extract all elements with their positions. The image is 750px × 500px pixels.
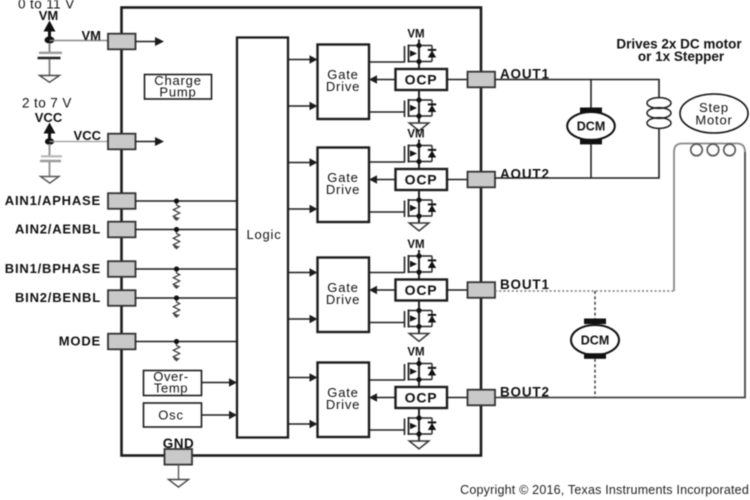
svg-text:Pump: Pump	[159, 85, 196, 100]
pin BIN2/BENBL	[108, 290, 136, 306]
wire gate drive to low-side gate A2	[369, 211, 405, 213]
wire OCP to gate drive A2	[369, 175, 396, 183]
wire AOUT2 external	[495, 128, 659, 178]
node VCC junction dot	[45, 138, 54, 145]
wire OCP to pin BOUT1	[447, 289, 468, 291]
wire OCP to pin BOUT2	[447, 397, 468, 399]
ground VCC cap	[41, 177, 60, 184]
svg-text:OCP: OCP	[405, 282, 438, 298]
OCP block B1	[396, 280, 448, 301]
svg-text:or 1x Stepper: or 1x Stepper	[638, 49, 725, 64]
wire gate drive to low-side gate B1	[369, 322, 405, 324]
resistor pulldown R-MODE	[173, 339, 180, 362]
svg-text:VM: VM	[82, 28, 102, 43]
wire gate drive to low-side gate A1	[369, 111, 405, 113]
resistor pulldown R-BIN2	[173, 295, 180, 318]
transistor high-side QA1H	[405, 43, 437, 64]
wire over-temp to logic	[202, 378, 238, 386]
resistor pulldown R-AIN1	[173, 198, 180, 221]
wire OCP to low-side B2	[418, 408, 420, 441]
wire logic to gate drive B2	[288, 373, 318, 381]
pin AIN2/AENBL	[108, 222, 136, 238]
wire logic to gate drive A2	[288, 205, 318, 213]
svg-text:2 to 7 V: 2 to 7 V	[22, 96, 72, 111]
wire BOUT1 external dotted	[495, 290, 674, 292]
svg-text:VCC: VCC	[74, 128, 102, 143]
svg-text:BOUT1: BOUT1	[500, 277, 550, 292]
ground half-bridge A1	[409, 123, 429, 131]
svg-text:OCP: OCP	[405, 72, 438, 88]
wire VCC pin arrow into chip	[136, 137, 165, 146]
wire OCP to pin AOUT1	[447, 79, 468, 81]
wire OCP to gate drive A1	[369, 75, 396, 83]
pin VM	[108, 34, 136, 50]
wire gate drive to high-side gate A2	[369, 161, 405, 163]
wire gate drive to high-side gate A1	[369, 61, 405, 63]
wire logic to gate drive A2	[288, 158, 318, 166]
svg-text:OCP: OCP	[405, 390, 438, 406]
svg-text:Logic: Logic	[246, 227, 281, 242]
wire BIN1 to logic	[136, 268, 238, 270]
resistor pulldown R-AIN2	[173, 227, 180, 250]
wire OCP to low-side B1	[418, 301, 420, 334]
charge pump block	[145, 73, 212, 100]
pin BOUT2	[468, 390, 496, 406]
svg-text:Osc: Osc	[158, 408, 184, 423]
wire VM to pin	[50, 40, 109, 42]
svg-text:VM: VM	[407, 129, 424, 141]
wire MODE to logic	[136, 341, 238, 343]
svg-text:Motor: Motor	[695, 113, 732, 128]
wire GND pin to ground	[178, 465, 180, 480]
motor DCM1	[567, 108, 615, 145]
wire OCP to low-side A1	[418, 90, 420, 123]
svg-text:Drive: Drive	[326, 182, 360, 197]
wire VM pin arrow into chip	[136, 37, 165, 46]
wire logic to gate drive A1	[288, 55, 318, 63]
pin AIN1/APHASE	[108, 193, 136, 209]
svg-text:VM: VM	[407, 29, 424, 41]
svg-text:Drive: Drive	[326, 79, 360, 94]
wire logic to gate drive B1	[288, 268, 318, 276]
pin BOUT1	[468, 282, 496, 298]
svg-text:Copyright © 2016, Texas Instru: Copyright © 2016, Texas Instruments Inco…	[460, 483, 749, 497]
pin BIN1/BPHASE	[108, 261, 136, 277]
wire OCP to low-side A2	[418, 190, 420, 223]
svg-text:BIN1/BPHASE: BIN1/BPHASE	[5, 261, 101, 276]
pin MODE	[108, 334, 136, 350]
motor step motor	[680, 94, 748, 133]
wire logic to gate drive A1	[288, 102, 318, 110]
note drives text	[616, 37, 742, 65]
svg-text:OCP: OCP	[405, 172, 438, 188]
wire VM rail to high-side B1	[418, 250, 420, 280]
wire BIN2 to logic	[136, 297, 238, 299]
pin VCC	[108, 134, 136, 150]
ground GND	[169, 480, 189, 488]
svg-text:VM: VM	[407, 347, 424, 359]
svg-text:MODE: MODE	[59, 334, 101, 349]
wire VM rail to high-side A1	[418, 40, 420, 70]
wire logic to gate drive B2	[288, 420, 318, 428]
svg-text:BIN2/BENBL: BIN2/BENBL	[15, 290, 101, 305]
transistor low-side QB1L	[405, 308, 437, 329]
svg-text:AIN1/APHASE: AIN1/APHASE	[5, 193, 101, 208]
transistor low-side QA1L	[405, 97, 437, 118]
transistor low-side QB2L	[405, 415, 437, 436]
svg-text:AIN2/AENBL: AIN2/AENBL	[15, 222, 101, 237]
transistor high-side QB1H	[405, 253, 437, 274]
wire osc to logic	[202, 411, 238, 419]
wire AIN2 to logic	[136, 229, 238, 231]
svg-text:VM: VM	[407, 239, 424, 251]
wire AOUT1 external	[495, 80, 659, 99]
transistor high-side QA2H	[405, 143, 437, 164]
svg-text:Drive: Drive	[326, 397, 360, 412]
wire DCM1 dashed top	[590, 80, 592, 108]
svg-text:Drive: Drive	[326, 292, 360, 307]
svg-text:Temp: Temp	[154, 381, 188, 396]
ground half-bridge A2	[409, 223, 429, 231]
ground half-bridge B2	[409, 441, 429, 449]
transistor low-side QA2L	[405, 197, 437, 218]
VM source arrow	[44, 21, 56, 39]
svg-text:DCM: DCM	[581, 334, 609, 348]
wire AIN1 to logic	[136, 200, 238, 202]
motor DCM2	[571, 319, 619, 359]
wire DCM2 dashed bottom	[594, 359, 596, 398]
pin AOUT2	[468, 172, 496, 188]
svg-text:AOUT2: AOUT2	[500, 167, 550, 182]
pin GND	[165, 449, 193, 465]
wire DCM1 dashed bottom	[590, 144, 592, 178]
wire OCP to gate drive B2	[369, 393, 396, 401]
capacitor C-VCC	[40, 144, 62, 176]
OCP block A2	[396, 169, 448, 190]
over-temperature block	[144, 369, 202, 396]
wire gate drive to high-side gate B1	[369, 272, 405, 274]
wire logic to gate drive B1	[288, 315, 318, 323]
capacitor C-VM	[38, 43, 63, 75]
wire gate drive to low-side gate B2	[369, 429, 405, 431]
wire VM rail to high-side A2	[418, 140, 420, 170]
svg-text:DCM: DCM	[577, 120, 605, 134]
pin AOUT1	[468, 72, 496, 88]
wire VCC to pin	[50, 141, 109, 143]
wire OCP to gate drive B1	[369, 286, 396, 294]
oscillator block	[144, 403, 202, 427]
resistor pulldown R-BIN1	[173, 266, 180, 289]
OCP block A1	[396, 69, 448, 90]
gate drive block A2	[318, 148, 370, 223]
OCP block B2	[396, 387, 448, 408]
logic block U-LOGIC	[237, 38, 288, 438]
wire DCM2 dashed top	[594, 291, 596, 319]
wire chip outline	[122, 8, 482, 456]
inductor stepper winding B	[691, 144, 736, 156]
ground half-bridge B1	[409, 334, 429, 342]
VCC source arrow	[44, 123, 56, 140]
node VM junction dot	[45, 36, 55, 43]
ground VM cap	[40, 76, 60, 83]
gate drive block B2	[318, 363, 370, 438]
gate drive block B1	[318, 258, 370, 333]
wire stepper left side	[674, 144, 745, 292]
wire BOUT2 external	[495, 152, 745, 398]
svg-text:VCC: VCC	[35, 110, 63, 125]
svg-text:VM: VM	[39, 8, 59, 23]
transistor high-side QB2H	[405, 361, 437, 382]
wire VM rail to high-side B2	[418, 358, 420, 388]
wire OCP to pin AOUT2	[447, 179, 468, 181]
gate drive block A1	[318, 45, 370, 120]
wire gate drive to high-side gate B2	[369, 379, 405, 381]
inductor stepper winding A	[647, 98, 671, 129]
